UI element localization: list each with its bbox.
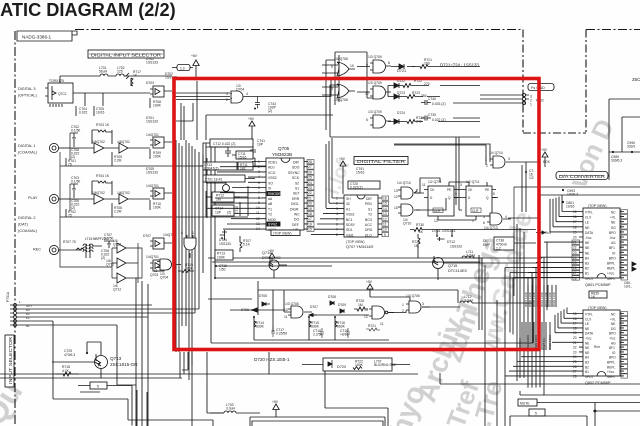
svg-text:1K: 1K	[105, 174, 110, 178]
wire ff nets	[416, 137, 498, 220]
nor gate Q708a	[331, 57, 355, 76]
svg-text:21: 21	[308, 196, 312, 200]
resistor R701	[66, 158, 76, 166]
svg-text:5: 5	[226, 92, 228, 96]
svg-text:1/2: 1/2	[529, 176, 534, 180]
svg-text:1/4 Q708: 1/4 Q708	[334, 57, 348, 61]
capacitor C716	[215, 264, 227, 272]
resistor R721	[412, 58, 440, 69]
capacitor C708	[71, 143, 80, 159]
svg-text:DIR: DIR	[366, 197, 372, 201]
gate Q706c	[402, 294, 430, 313]
inverter Q702d	[112, 191, 150, 204]
coax input DIGITAL 1	[18, 144, 38, 155]
svg-text:4C: 4C	[346, 202, 351, 206]
wire bottom right rails	[440, 265, 640, 426]
svg-text:27: 27	[573, 370, 577, 374]
svg-text:VTFL: VTFL	[585, 211, 593, 215]
svg-text:+5V: +5V	[339, 157, 346, 161]
svg-text:1SS133: 1SS133	[450, 244, 462, 248]
resistor R716	[334, 316, 346, 329]
svg-text:BPO: BPO	[609, 231, 616, 235]
wire q707 left	[311, 138, 340, 234]
svg-text:Q7C1: Q7C1	[58, 92, 67, 96]
capacitor C720	[348, 181, 380, 189]
svg-text:PE: PE	[447, 188, 451, 192]
resistor R704	[92, 174, 112, 195]
svg-text:DTA124XS: DTA124XS	[262, 256, 281, 260]
dac block frame	[514, 187, 640, 296]
bottom right section box	[510, 416, 587, 426]
svg-text:26: 26	[573, 365, 577, 369]
svg-text:B4: B4	[585, 356, 589, 360]
wire under box	[302, 364, 410, 366]
capacitor C993	[562, 189, 578, 197]
gate Q713a	[483, 213, 511, 230]
wire crystal net	[206, 143, 255, 217]
svg-text:SCK: SCK	[292, 176, 300, 180]
wire bus into red box	[172, 81, 230, 140]
crystal X701	[203, 175, 245, 195]
pin stubs left	[262, 162, 266, 230]
svg-text:1/3 Q709: 1/3 Q709	[368, 81, 382, 85]
svg-text:1: 1	[336, 197, 338, 201]
diode D721	[391, 64, 415, 73]
inductor L701	[92, 66, 110, 76]
svg-text:BF1: BF1	[609, 246, 615, 250]
svg-text:AG: AG	[611, 341, 616, 345]
svg-text:PE: PE	[485, 188, 489, 192]
svg-text:DIGITAL FILTER: DIGITAL FILTER	[357, 159, 406, 164]
svg-text:P731A: P731A	[6, 291, 10, 302]
top view label	[271, 230, 300, 236]
svg-text:23: 23	[573, 350, 577, 354]
dac rail box outer	[609, 99, 640, 180]
svg-text:SRPL: SRPL	[607, 277, 616, 281]
gate Q704b	[154, 255, 181, 280]
svg-text:1SS133: 1SS133	[146, 60, 158, 64]
wire lower box nets	[208, 290, 532, 340]
pin RMODE inverted	[267, 192, 280, 196]
svg-text:VSS2: VSS2	[346, 213, 355, 217]
svg-text:17: 17	[308, 217, 312, 221]
svg-text:20: 20	[308, 202, 312, 206]
svg-text:T2: T2	[268, 213, 272, 217]
inverter Q702c	[88, 191, 112, 204]
svg-text:1/50: 1/50	[219, 268, 226, 272]
svg-text:B2: B2	[585, 365, 589, 369]
svg-text:VCO: VCO	[268, 171, 276, 175]
svg-text:19: 19	[573, 331, 577, 335]
svg-text:SDO: SDO	[292, 166, 300, 170]
right pin number boxes	[307, 160, 314, 232]
svg-text:RMODE: RMODE	[268, 192, 281, 196]
svg-text:15/16: 15/16	[238, 156, 247, 160]
svg-text:ACC: ACC	[365, 223, 373, 227]
svg-text:aB: aB	[268, 202, 273, 206]
transistor Q714	[262, 249, 287, 278]
svg-text:+6V: +6V	[191, 54, 198, 58]
wire bottom left risers2	[180, 352, 192, 378]
svg-text:LE: LE	[585, 221, 589, 225]
svg-text:VTFL: VTFL	[585, 313, 593, 317]
connector P731A	[6, 291, 199, 328]
svg-text:8: 8	[388, 61, 390, 65]
svg-text:DIGITAL 3: DIGITAL 3	[18, 87, 36, 91]
svg-text:19: 19	[573, 230, 577, 234]
label D/A converter	[556, 172, 608, 180]
svg-text:1: 1	[19, 300, 21, 304]
svg-text:XO: XO	[268, 181, 273, 185]
and gate Q710b	[394, 204, 420, 226]
svg-text:330K: 330K	[311, 325, 320, 329]
svg-text:B4: B4	[585, 256, 589, 260]
resistor R703	[92, 123, 112, 144]
wire digital1 row	[60, 133, 208, 203]
capacitor C743	[250, 97, 277, 114]
svg-text:3: 3	[331, 87, 333, 91]
jack J3 REC	[49, 245, 76, 254]
svg-text:3: 3	[460, 183, 462, 187]
gate Q706a	[284, 302, 312, 319]
svg-text:Q715: Q715	[448, 264, 457, 268]
svg-text:BL02RN2-R62: BL02RN2-R62	[374, 363, 396, 367]
svg-text:B2: B2	[585, 267, 589, 271]
svg-text:100K: 100K	[153, 103, 162, 107]
svg-text:(Z): (Z)	[101, 256, 105, 260]
diode D702 label	[146, 57, 158, 64]
svg-text:SDSY: SDSY	[346, 223, 356, 227]
svg-text:-Vcc: -Vcc	[609, 236, 616, 240]
resistor R708	[150, 98, 162, 108]
connector P702	[480, 93, 544, 106]
svg-text:B1: B1	[585, 370, 589, 374]
svg-text:DG: DG	[611, 327, 616, 331]
svg-text:4: 4	[336, 212, 338, 216]
svg-text:10/16: 10/16	[566, 205, 575, 209]
power +5V lower	[366, 280, 373, 297]
svg-text:0.022(Z): 0.022(Z)	[350, 185, 363, 189]
svg-text:B3: B3	[585, 361, 589, 365]
svg-text:0.1/50: 0.1/50	[71, 179, 80, 183]
svg-text:24: 24	[573, 355, 577, 359]
svg-text:24: 24	[573, 256, 577, 260]
svg-text:DIGITAL 1: DIGITAL 1	[18, 144, 36, 148]
svg-text:27: 27	[573, 271, 577, 275]
svg-text:YM3623B: YM3623B	[272, 152, 292, 157]
capacitor C791	[356, 167, 365, 175]
svg-text:+VL: +VL	[610, 317, 616, 321]
jack J1	[49, 143, 70, 152]
svg-text:22: 22	[573, 346, 577, 350]
svg-text:VDD1: VDD1	[268, 161, 277, 165]
capacitor C712	[203, 139, 253, 165]
svg-text:DIGL: DIGL	[291, 202, 299, 206]
power +5V crystal	[248, 117, 255, 140]
gate Q704	[226, 84, 250, 103]
svg-text:22: 22	[573, 246, 577, 250]
svg-text:20: 20	[573, 236, 577, 240]
buffer Q712b	[106, 258, 138, 268]
svg-text:(OPTICAL): (OPTICAL)	[18, 94, 38, 98]
svg-text:DRG: DRG	[365, 228, 373, 232]
capacitor C713 R711	[200, 162, 266, 171]
svg-text:IO: IO	[612, 351, 616, 355]
label MUTE	[518, 399, 537, 406]
capacitor C703	[70, 176, 80, 194]
svg-text:T1: T1	[268, 207, 272, 211]
bottom section box	[250, 417, 385, 426]
svg-text:16: 16	[308, 222, 312, 226]
resistor R730	[410, 223, 426, 234]
svg-text:100K: 100K	[217, 255, 226, 259]
capacitor C702	[70, 125, 80, 143]
diode D709	[338, 303, 346, 313]
diode D724	[388, 111, 424, 124]
svg-text:PLAY: PLAY	[28, 196, 38, 200]
inductor L702	[110, 66, 129, 79]
capacitor C719	[340, 328, 350, 338]
svg-text:INPUT SELECTOR: INPUT SELECTOR	[8, 336, 13, 384]
svg-text:1/3 Q709: 1/3 Q709	[368, 55, 382, 59]
svg-text:2.2/50: 2.2/50	[313, 333, 322, 337]
svg-text:3: 3	[422, 302, 424, 306]
optical receiver Q7C1 TORX175	[45, 79, 73, 107]
watermark	[0, 114, 620, 426]
gate D703 1SS133	[146, 81, 172, 97]
svg-text:R828 100K: R828 100K	[548, 335, 552, 350]
svg-text:VSS2: VSS2	[268, 176, 277, 180]
svg-text:3: 3	[508, 157, 510, 161]
svg-text:+VL: +VL	[610, 216, 616, 220]
capacitor C740	[421, 97, 446, 106]
svg-text:NE: NE	[585, 341, 589, 345]
svg-text:D723: D723	[397, 91, 405, 95]
svg-text:NE: NE	[585, 327, 589, 331]
svg-text:6: 6	[258, 186, 260, 190]
svg-text:NE: NE	[585, 226, 589, 230]
svg-text:17: 17	[573, 322, 577, 326]
diode D706	[230, 308, 263, 312]
wire q802 left bundle	[505, 314, 579, 376]
svg-text:ERR: ERR	[292, 197, 300, 201]
svg-text:100/6.3: 100/6.3	[567, 193, 578, 197]
wire rec feedback	[60, 243, 142, 283]
svg-text:1: 1	[402, 303, 404, 307]
svg-text:13: 13	[364, 308, 368, 312]
DIGITAL 2 DAT label	[18, 216, 41, 252]
svg-text:6: 6	[336, 223, 338, 227]
svg-text:100K: 100K	[153, 205, 162, 209]
svg-text:75: 75	[72, 240, 76, 244]
svg-text:(COAXIAL): (COAXIAL)	[18, 229, 38, 233]
svg-text:1: 1	[192, 231, 194, 235]
svg-text:aA: aA	[268, 197, 273, 201]
capacitor C717	[271, 327, 287, 337]
svg-text:0.25/50: 0.25/50	[276, 332, 287, 336]
svg-text:23: 23	[308, 186, 312, 190]
resistor bank R80x	[524, 285, 556, 307]
lower block box	[211, 278, 533, 343]
capacitor C705	[94, 106, 105, 116]
svg-text:6: 6	[483, 221, 485, 225]
svg-text:NE: NE	[585, 351, 589, 355]
svg-text:BC1: BC1	[346, 218, 353, 222]
svg-text:18: 18	[573, 225, 577, 229]
svg-text:DATA: DATA	[585, 332, 594, 336]
diode D705 label	[146, 167, 158, 174]
svg-text:+5V: +5V	[272, 400, 279, 404]
svg-text:D709: D709	[338, 303, 346, 307]
svg-text:D708: D708	[328, 295, 336, 299]
svg-text:BPPL: BPPL	[607, 262, 615, 266]
svg-text:9: 9	[384, 233, 386, 237]
resistor R718	[55, 365, 79, 376]
svg-text:1SS133: 1SS133	[146, 119, 158, 123]
svg-text:VPDT: VPDT	[585, 375, 594, 379]
wire top rail	[60, 76, 150, 88]
wire play row	[60, 184, 208, 255]
svg-text:+Vcc: +Vcc	[607, 370, 615, 374]
and gate Q710a	[394, 181, 420, 199]
svg-text:1K: 1K	[105, 123, 110, 127]
power +5V filter	[339, 157, 346, 194]
nand gate Q706b	[364, 306, 394, 326]
svg-text:BPPL: BPPL	[607, 361, 615, 365]
svg-text:18: 18	[573, 326, 577, 330]
svg-text:16: 16	[573, 215, 577, 219]
svg-text:11: 11	[256, 211, 260, 215]
power +6V	[172, 54, 199, 81]
resistor R714	[253, 316, 265, 329]
svg-text:MUTE: MUTE	[520, 402, 530, 406]
inductor L711	[462, 250, 476, 258]
svg-text:-Vcc: -Vcc	[609, 337, 616, 341]
svg-text:2: 2	[336, 202, 338, 206]
fuse 1.0 box	[177, 65, 190, 71]
svg-text:1/4Q701: 1/4Q701	[146, 133, 159, 137]
svg-text:BPO: BPO	[609, 332, 616, 336]
svg-text:R707: R707	[63, 240, 71, 244]
buffer Q712a	[112, 239, 138, 253]
svg-text:DIGITAL 2: DIGITAL 2	[18, 216, 36, 220]
svg-text:13: 13	[383, 212, 387, 216]
svg-text:560K: 560K	[337, 325, 346, 329]
text C80x	[624, 281, 632, 289]
svg-text:NE: NE	[585, 241, 589, 245]
label Fs GND	[528, 84, 554, 91]
svg-text:S1: S1	[368, 207, 372, 211]
svg-text:DLO: DLO	[365, 233, 372, 237]
svg-text:28: 28	[308, 160, 312, 164]
capacitor C708b	[101, 249, 110, 260]
svg-text:BPO: BPO	[609, 356, 616, 360]
svg-text:100K: 100K	[153, 154, 162, 158]
svg-text:BCK: BCK	[543, 160, 551, 164]
svg-text:+Vcc: +Vcc	[607, 272, 615, 276]
flip-flop Q711a	[422, 180, 458, 223]
svg-text:NE: NE	[611, 221, 615, 225]
svg-text:1/4 Q710: 1/4 Q710	[397, 181, 411, 185]
svg-text:R721: R721	[368, 324, 376, 328]
diode D701 label	[146, 116, 158, 123]
svg-text:Q703: Q703	[150, 273, 158, 277]
red highlight rectangle	[174, 79, 539, 350]
diode D712	[436, 235, 462, 248]
svg-text:XI: XI	[268, 187, 271, 191]
svg-text:DATA: DATA	[585, 231, 594, 235]
svg-text:D721: D721	[397, 69, 406, 73]
svg-text:10: 10	[284, 308, 288, 312]
svg-text:D705: D705	[259, 294, 267, 298]
resistor R706	[112, 203, 122, 217]
svg-text:MOD: MOD	[268, 218, 276, 222]
svg-text:D720 HZS.1EB-1: D720 HZS.1EB-1	[254, 357, 290, 362]
capacitor C7xx	[525, 169, 535, 180]
svg-text:C712 0.022 (Z): C712 0.022 (Z)	[213, 142, 236, 146]
svg-text:B3: B3	[585, 262, 589, 266]
svg-text:SRPL: SRPL	[607, 375, 616, 379]
IC Q707 YM3414	[336, 195, 389, 249]
svg-text:TORX175: TORX175	[49, 79, 64, 83]
svg-text:5: 5	[336, 217, 338, 221]
capacitor C989	[609, 151, 640, 163]
svg-text:16: 16	[383, 197, 387, 201]
svg-text:24: 24	[308, 181, 312, 185]
svg-text:NE: NE	[585, 346, 589, 350]
text BLK arrow	[536, 231, 551, 235]
resistor R713	[215, 250, 233, 260]
svg-text:Q801 PCM56P: Q801 PCM56P	[585, 283, 611, 287]
svg-text:R703: R703	[96, 123, 104, 127]
svg-text:1/4 Q710: 1/4 Q710	[489, 151, 503, 155]
label INPUT SELECTOR vertical	[5, 335, 14, 387]
svg-text:R704: R704	[96, 174, 104, 178]
flip-flop Q711b	[460, 180, 496, 223]
resistor R715b	[308, 316, 320, 329]
svg-text:NC: NC	[611, 211, 616, 215]
wire bottom long rails	[0, 352, 418, 426]
svg-text:470/6.3: 470/6.3	[64, 353, 75, 357]
svg-text:4: 4	[246, 92, 248, 96]
buffer Q712c	[112, 273, 138, 291]
wire bundle verticals center-left	[176, 140, 215, 426]
diode D704	[219, 230, 231, 246]
svg-text:1SS133: 1SS133	[219, 242, 231, 246]
label DIGITAL 3 (OPTICAL)	[18, 87, 38, 98]
inverter Q702a	[88, 140, 112, 153]
svg-text:25: 25	[308, 176, 312, 180]
svg-text:D707: D707	[310, 305, 318, 309]
sheet border dash-dot top	[75, 29, 640, 31]
wire mid horizontal bus	[208, 258, 480, 266]
svg-text:Q714: Q714	[262, 251, 271, 255]
svg-text:LT15: LT15	[85, 237, 93, 241]
svg-text:2SC1815-GR: 2SC1815-GR	[110, 362, 138, 367]
svg-text:1/3 Q709: 1/3 Q709	[368, 110, 382, 114]
IC Q801 PCM56P	[573, 208, 624, 287]
svg-text:22: 22	[308, 191, 312, 195]
capacitor C707	[104, 233, 114, 248]
diode D722	[388, 79, 430, 88]
svg-text:DG: DG	[611, 226, 616, 230]
svg-text:R806 110K: R806 110K	[552, 292, 556, 307]
svg-text:330K: 330K	[256, 325, 265, 329]
q801 right pin boxes	[621, 210, 628, 281]
svg-text:S1: S1	[295, 187, 299, 191]
svg-text:10P: 10P	[215, 210, 222, 214]
svg-text:Q710: Q710	[403, 222, 411, 226]
